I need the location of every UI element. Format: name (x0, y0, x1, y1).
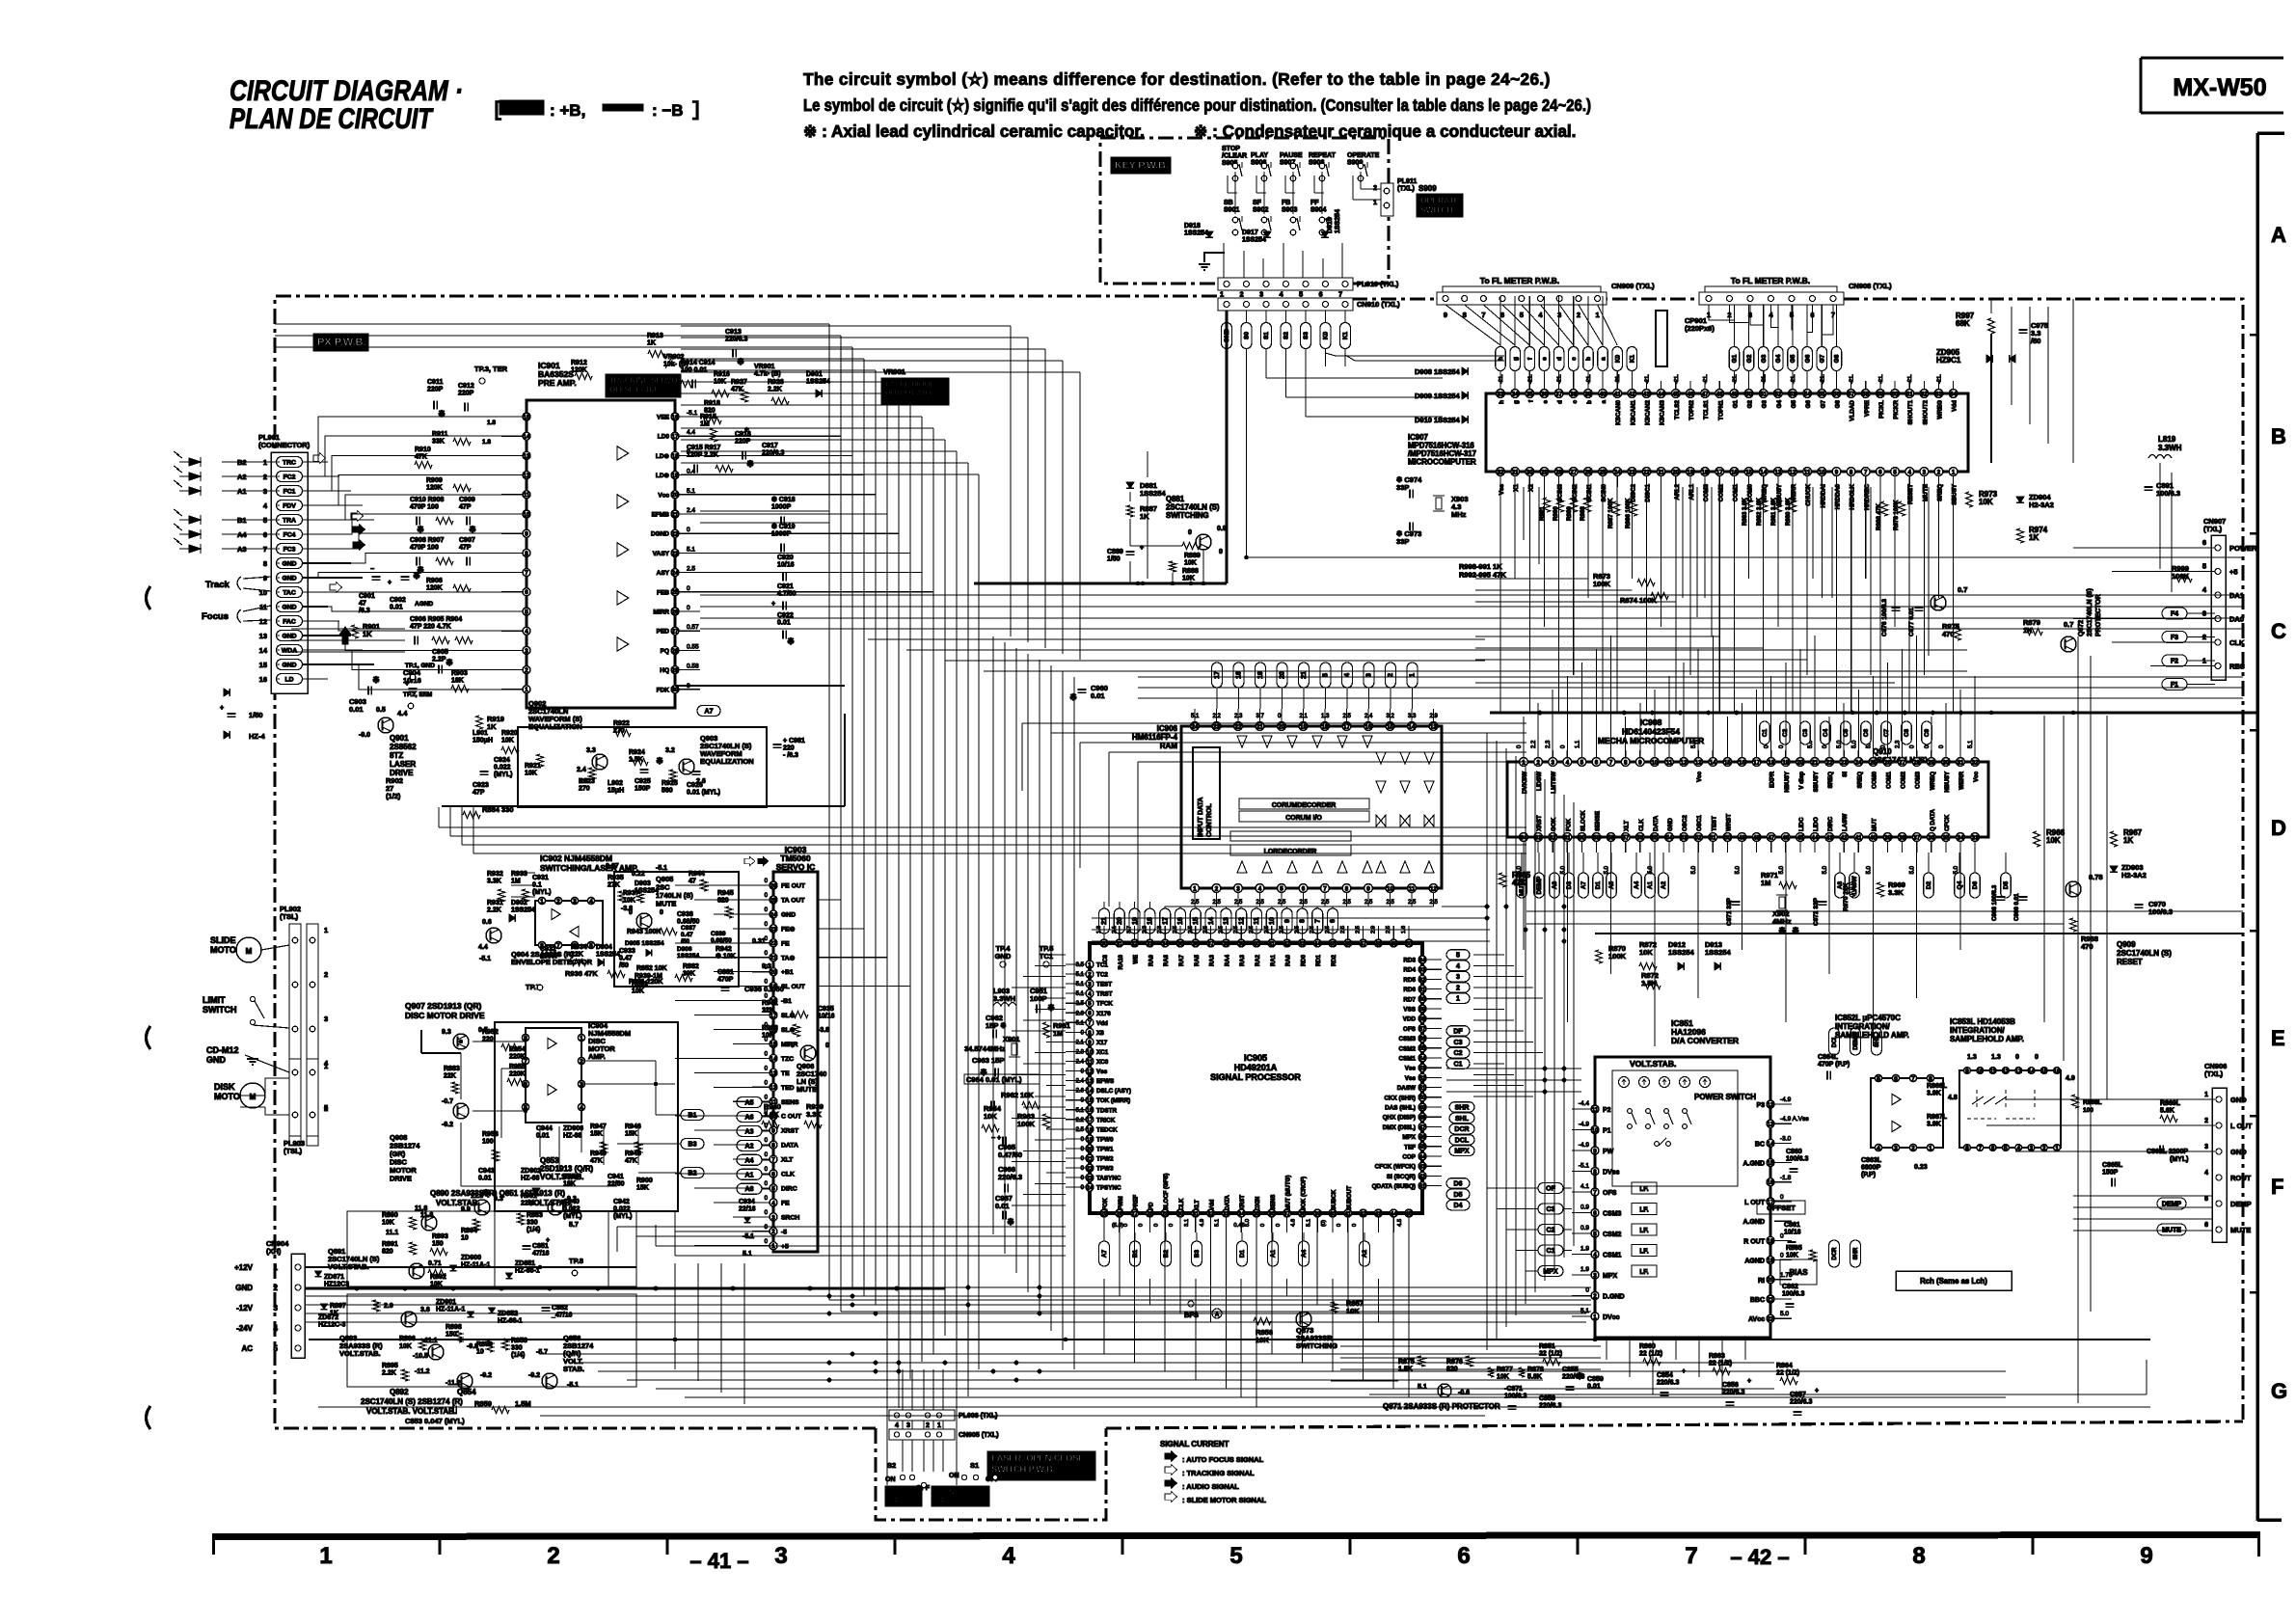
svg-text:: SLIDE MOTOR SIGNAL: : SLIDE MOTOR SIGNAL (1182, 1496, 1266, 1504)
svg-text:1SS254: 1SS254 (596, 952, 620, 959)
svg-text:A2: A2 (1661, 880, 1667, 889)
svg-text:(TSL): (TSL) (280, 912, 299, 921)
resistors R986 R987 (1613, 501, 1620, 516)
IC907 bottom pins (1497, 468, 1505, 476)
svg-text:12: 12 (524, 473, 530, 479)
svg-text:-4.9 A.Vss: -4.9 A.Vss (1780, 1116, 1809, 1123)
svg-text:TRA: TRA (283, 518, 296, 525)
svg-text:6: 6 (1991, 1145, 1995, 1151)
wire bundle central vertical bus (828, 324, 830, 1300)
svg-text:: −B: : −B (652, 101, 684, 120)
svg-text:※ C918: ※ C918 (771, 496, 796, 503)
svg-text:22: 22 (672, 531, 679, 538)
svg-text:43: 43 (1419, 1164, 1426, 1171)
svg-text:9OK (CROF): 9OK (CROF) (1301, 1177, 1307, 1210)
svg-text:TEST: TEST (1096, 982, 1112, 988)
svg-text:40: 40 (1870, 834, 1877, 841)
svg-text:: AUTO FOCUS SIGNAL: : AUTO FOCUS SIGNAL (1182, 1455, 1264, 1464)
wire long horizontals to right edge (1526, 910, 2243, 912)
wire protector row (1369, 1394, 2147, 1395)
svg-text:TP.8: TP.8 (569, 1257, 583, 1265)
svg-text:10K: 10K (430, 1282, 443, 1288)
svg-text:(TXL): (TXL) (2203, 525, 2223, 533)
svg-text:-5.1: -5.1 (479, 956, 491, 962)
svg-text:52: 52 (1774, 391, 1781, 397)
svg-text:※: ※ (438, 409, 446, 419)
svg-text:※: ※ (1576, 1371, 1583, 1381)
svg-text:R865: R865 (1786, 1245, 1802, 1252)
svg-text:HD49201A: HD49201A (1234, 1063, 1278, 1072)
resistor R888 (1170, 561, 1176, 572)
svg-text:+: + (744, 425, 749, 434)
svg-text:13: 13 (1774, 469, 1781, 475)
svg-text:1.8: 1.8 (482, 439, 491, 446)
svg-text:TOPN1: TOPN1 (1717, 400, 1724, 420)
Q905 mute cluster (614, 872, 739, 987)
svg-text:-21.: -21. (1557, 374, 1563, 384)
svg-text:5.7: 5.7 (569, 1222, 579, 1229)
svg-text:0: 0 (791, 1042, 795, 1049)
svg-text:TEDCK: TEDCK (1096, 1126, 1118, 1133)
svg-text:5.6K: 5.6K (2160, 1108, 2174, 1115)
wire horizontal feeds from left border (275, 323, 829, 325)
svg-text:4: 4 (1088, 991, 1092, 998)
IC905 right pills (1446, 950, 1470, 961)
svg-text:7: 7 (1864, 469, 1868, 475)
svg-text:2: 2 (1373, 185, 1377, 192)
svg-text:CLK: CLK (2229, 638, 2245, 647)
svg-text:R955: R955 (509, 1064, 526, 1070)
svg-text:25: 25 (1101, 1210, 1108, 1217)
svg-text:SHR: SHR (1455, 1105, 1470, 1112)
svg-text:VOLT.STAB. VOLT.STAB.: VOLT.STAB. VOLT.STAB. (366, 1407, 456, 1416)
svg-text:25: 25 (672, 589, 679, 596)
wire CN908 drops (1709, 305, 1734, 345)
svg-text:(MYL): (MYL) (532, 889, 551, 896)
svg-text:G5: G5 (1790, 354, 1796, 363)
svg-text:19: 19 (1782, 759, 1789, 766)
svg-text:9: 9 (1593, 1148, 1597, 1154)
wire IC907 bottom drops (1499, 487, 1501, 713)
resistor R965 (1499, 873, 1506, 887)
svg-text:12: 12 (259, 617, 267, 626)
svg-text:C7: C7 (1883, 728, 1890, 737)
svg-text:39: 39 (1884, 834, 1891, 841)
svg-text:6: 6 (1457, 1543, 1470, 1569)
svg-text:D6: D6 (1454, 1181, 1463, 1188)
svg-text:C OUT: C OUT (781, 1114, 802, 1121)
svg-text:29: 29 (1541, 469, 1548, 475)
svg-text:7: 7 (1911, 1075, 1915, 1082)
svg-text:41: 41 (1419, 1183, 1426, 1190)
svg-text:MX-W50: MX-W50 (2173, 74, 2266, 101)
wire long horizontals row E (1446, 1068, 1581, 1069)
svg-text:R911: R911 (432, 431, 447, 438)
svg-text:※: ※ (787, 636, 795, 646)
svg-text:2.9: 2.9 (384, 1303, 393, 1310)
svg-text:0.022: 0.022 (494, 765, 511, 771)
svg-text:11.1: 11.1 (386, 1230, 398, 1236)
svg-text:CN910 (TXL): CN910 (TXL) (1357, 300, 1400, 309)
svg-text:C9: C9 (1924, 728, 1931, 737)
svg-text:d: d (1557, 400, 1564, 404)
svg-text:CSM2: CSM2 (1603, 1232, 1622, 1238)
svg-text:L OUT: L OUT (1744, 1200, 1766, 1206)
svg-text:28: 28 (672, 648, 679, 655)
waveform EQ box (518, 727, 767, 807)
IC852L opamp block (1871, 1078, 1943, 1148)
svg-text:30: 30 (672, 687, 679, 693)
svg-text:COP: COP (1402, 1154, 1416, 1161)
svg-text:Vcc: Vcc (1696, 771, 1703, 782)
svg-text:55: 55 (1419, 1045, 1426, 1052)
svg-text:R891: R891 (382, 1241, 398, 1248)
svg-text:1: 1 (1952, 469, 1956, 475)
svg-text:48: 48 (1419, 1115, 1426, 1122)
svg-text:D908 1SS254: D908 1SS254 (1415, 367, 1461, 376)
key pwb ground (1204, 253, 1225, 262)
svg-text:4.5: 4.5 (1397, 1219, 1403, 1227)
svg-text:+: + (220, 705, 224, 712)
svg-text:SBUSY: SBUSY (1952, 483, 1958, 504)
svg-text:AC: AC (241, 1344, 253, 1353)
svg-text:11: 11 (1989, 1068, 1996, 1074)
svg-text:46: 46 (1688, 391, 1694, 397)
svg-text:R986 100K: R986 100K (1625, 498, 1632, 528)
svg-text:22K: 22K (571, 952, 583, 959)
svg-text:D904: D904 (596, 944, 612, 951)
svg-text:XRST: XRST (1240, 1195, 1246, 1210)
svg-text:-9.0: -9.0 (359, 732, 370, 739)
volt stab section outlines (347, 1211, 636, 1286)
svg-text:42: 42 (1419, 1174, 1426, 1180)
svg-text:TA OUT: TA OUT (781, 897, 805, 904)
svg-text:G6: G6 (1805, 400, 1812, 409)
svg-text:Vss: Vss (1405, 1075, 1417, 1082)
svg-text:ZD851: ZD851 (515, 1260, 535, 1267)
svg-text:18K: 18K (451, 678, 464, 685)
svg-text:COM3: COM3 (1703, 484, 1710, 502)
svg-text:11.8: 11.8 (415, 1205, 427, 1212)
svg-text:0: 0 (687, 527, 690, 533)
svg-text:TASYNC: TASYNC (1096, 1176, 1121, 1182)
svg-text:2.2K: 2.2K (487, 907, 501, 914)
svg-text:Q DATA: Q DATA (1930, 809, 1936, 831)
svg-text:SCIN0: SCIN0 (1601, 484, 1607, 502)
svg-text:※: ※ (469, 525, 476, 534)
svg-text:21: 21 (1087, 1155, 1094, 1162)
svg-text:POWER: POWER (2229, 544, 2257, 553)
svg-text:C968 100/6.3: C968 100/6.3 (1991, 884, 1998, 921)
svg-text:0.7: 0.7 (2064, 620, 2073, 629)
svg-text:23: 23 (672, 551, 679, 557)
svg-text:1000P: 1000P (771, 504, 792, 511)
svg-text:GND: GND (282, 663, 296, 669)
svg-text:TPW1: TPW1 (1096, 1146, 1114, 1152)
svg-text:2.5: 2.5 (1430, 900, 1439, 906)
svg-text:5: 5 (1520, 311, 1524, 319)
svg-text:19: 19 (672, 473, 679, 479)
svg-text:1M: 1M (1053, 1029, 1063, 1038)
svg-text:HZ-11A-1: HZ-11A-1 (461, 1262, 490, 1269)
svg-text:15: 15 (524, 414, 530, 420)
svg-text:47P: 47P (459, 545, 472, 552)
svg-text:R898: R898 (446, 1324, 462, 1331)
svg-text:60: 60 (1892, 391, 1899, 397)
svg-text:3.3K: 3.3K (764, 1110, 779, 1119)
svg-text:1K: 1K (647, 340, 656, 347)
svg-text:5.1: 5.1 (1418, 1384, 1427, 1391)
svg-text:LIDO: LIDO (1813, 817, 1820, 831)
svg-text:3.9K: 3.9K (1927, 1122, 1941, 1128)
svg-text:-21.: -21. (1732, 374, 1738, 384)
svg-text:9: 9 (1835, 469, 1839, 475)
svg-text:TED: TED (781, 1085, 795, 1092)
svg-text:24: 24 (770, 911, 777, 918)
svg-text:C937: C937 (681, 925, 696, 932)
svg-text:A3: A3 (745, 1128, 754, 1135)
svg-text:FF: FF (1310, 200, 1319, 206)
svg-text:DATA: DATA (781, 1143, 798, 1150)
svg-text:5: 5 (771, 1185, 775, 1192)
svg-text:HQ: HQ (660, 667, 669, 674)
svg-text:(TXL): (TXL) (2204, 1069, 2224, 1078)
svg-text:8: 8 (1345, 885, 1349, 892)
svg-text:6: 6 (1593, 1210, 1597, 1217)
svg-text:R925: R925 (662, 780, 678, 787)
resistor R856 (1254, 1318, 1271, 1325)
svg-text:P3: P3 (1756, 1102, 1765, 1109)
svg-text:2.3: 2.3 (1896, 740, 1902, 748)
svg-text:0: 0 (1123, 1224, 1129, 1227)
svg-text:1SS254: 1SS254 (1184, 230, 1208, 237)
svg-text:47/16: 47/16 (532, 1251, 550, 1258)
svg-text:B1: B1 (1132, 1249, 1139, 1258)
svg-text:15μH: 15μH (608, 788, 624, 795)
signal arrow TRA (351, 510, 364, 521)
frame right edge with zone letters (2255, 133, 2259, 1521)
diode D908 (1462, 367, 1468, 375)
svg-text:15: 15 (259, 661, 267, 669)
svg-text:R988: R988 (1580, 506, 1586, 521)
svg-text:4: 4 (1877, 1145, 1880, 1151)
svg-text:1: 1 (1596, 311, 1600, 319)
svg-text:2: 2 (1593, 1293, 1597, 1300)
svg-text:A1: A1 (1647, 880, 1654, 889)
svg-text:1: 1 (1220, 290, 1224, 299)
svg-text:54: 54 (1419, 1055, 1426, 1062)
svg-text:3: 3 (2204, 1144, 2208, 1150)
svg-text:Vcc: Vcc (1973, 771, 1980, 782)
svg-text:OFS: OFS (1403, 1026, 1416, 1033)
svg-text:L OUT: L OUT (2230, 1122, 2253, 1130)
svg-text:100: 100 (482, 1139, 494, 1146)
svg-text:GND: GND (282, 561, 296, 568)
svg-text:S2: S2 (887, 1461, 896, 1470)
diodes D916-D918 (1205, 231, 1213, 237)
svg-text:23: 23 (1087, 1176, 1094, 1182)
svg-text:2.2K: 2.2K (768, 387, 782, 393)
svg-text:A1: A1 (1270, 1249, 1277, 1258)
svg-text:: AUDIO SIGNAL: : AUDIO SIGNAL (1182, 1482, 1239, 1491)
svg-text:SREQ: SREQ (1937, 484, 1944, 501)
svg-text:0: 0 (1153, 1224, 1159, 1227)
svg-text:LASW: LASW (1842, 814, 1849, 831)
svg-text:+: + (1747, 1378, 1751, 1385)
wire PL901 to IC901 (303, 417, 523, 462)
wire IC907 bottom bus (1490, 712, 2256, 715)
wire EQ out horizontals (439, 826, 1526, 828)
resistor R975 (1955, 627, 1961, 640)
svg-text:2.4: 2.4 (577, 767, 586, 773)
svg-text:SWITCH P.W.B.: SWITCH P.W.B. (991, 1465, 1055, 1475)
svg-text:21: 21 (1658, 469, 1664, 475)
svg-text:GND: GND (282, 634, 296, 640)
svg-text:b: b (1585, 357, 1592, 361)
svg-text:1/50: 1/50 (1107, 556, 1121, 563)
svg-text:+: + (1815, 1388, 1819, 1394)
IC903 pills (737, 1097, 762, 1108)
svg-text:SLOCF (GFS): SLOCF (GFS) (1164, 1174, 1170, 1210)
svg-text:C963 15P: C963 15P (972, 1056, 1004, 1065)
IC906 pills below (1099, 908, 1110, 934)
svg-text:-9.2: -9.2 (442, 1122, 453, 1128)
pills DCR SHR (1829, 1240, 1840, 1267)
svg-text:SL OUT: SL OUT (781, 984, 806, 990)
IC906 pills above (1212, 663, 1223, 688)
wire lower right horizontals (1340, 1345, 1601, 1347)
svg-text:RESET: RESET (2117, 958, 2143, 966)
svg-text:-9.2: -9.2 (528, 1372, 540, 1379)
wire horizontals under IC905 (305, 1295, 1586, 1297)
svg-text:RD1: RD1 (1316, 954, 1322, 966)
svg-text:PL911: PL911 (1397, 178, 1417, 185)
svg-text:6: 6 (525, 589, 528, 596)
svg-text:I.F.: I.F. (1639, 1207, 1648, 1214)
svg-text:COM3: COM3 (1915, 771, 1922, 788)
svg-text:24: 24 (1614, 469, 1621, 475)
wire right horizontals above bus (1138, 676, 2243, 678)
svg-text:48: 48 (1716, 391, 1723, 397)
IC903 servo block (773, 872, 818, 1252)
svg-text:1K: 1K (2029, 533, 2039, 542)
svg-text:150μH: 150μH (473, 738, 493, 744)
svg-text:FEB: FEB (657, 589, 669, 596)
svg-text:39: 39 (1314, 1210, 1321, 1217)
svg-text:e: e (1542, 400, 1549, 404)
svg-text:18: 18 (1768, 759, 1774, 766)
svg-text:10K: 10K (525, 771, 537, 777)
svg-text:50: 50 (1419, 1095, 1426, 1101)
svg-text:R936 47K: R936 47K (565, 969, 598, 978)
svg-text:X1: X1 (1513, 484, 1520, 492)
svg-text:-24V: -24V (236, 1324, 254, 1333)
svg-text:C915 R917: C915 R917 (687, 445, 721, 451)
svg-text:C861: C861 (1784, 1222, 1800, 1229)
svg-text:6: 6 (2202, 538, 2206, 547)
svg-text:DEMP: DEMP (2162, 1202, 2182, 1208)
svg-text:22: 22 (1826, 759, 1833, 766)
svg-text:31: 31 (1512, 469, 1519, 475)
svg-text:※: ※ (746, 459, 754, 469)
svg-text:5.1: 5.1 (1076, 1020, 1085, 1026)
svg-text:SWITCH: SWITCH (1420, 205, 1453, 215)
svg-text:IC905: IC905 (1244, 1053, 1267, 1063)
svg-text:4: 4 (1907, 469, 1911, 475)
svg-text:RD7: RD7 (1403, 996, 1416, 1003)
svg-text:14: 14 (1087, 1088, 1094, 1095)
svg-text:C860: C860 (1786, 1149, 1802, 1155)
svg-text:10K: 10K (399, 1343, 412, 1350)
caps C901 C902 (372, 576, 381, 578)
svg-text:2.2: 2.2 (1076, 1118, 1085, 1123)
svg-text:F2: F2 (2171, 659, 2178, 665)
svg-text:6: 6 (1330, 919, 1337, 923)
caps C968 C969 (1997, 896, 2006, 898)
svg-text:LASER: LASER (390, 760, 416, 769)
svg-text:I.F.: I.F. (1639, 1269, 1648, 1276)
svg-text:DCR: DCR (1454, 1126, 1469, 1133)
svg-text:DVss: DVss (1603, 1170, 1620, 1177)
svg-text:-5.1: -5.1 (656, 865, 667, 872)
svg-text:XLT: XLT (1195, 1200, 1201, 1210)
svg-text:P1: P1 (1603, 1128, 1611, 1135)
svg-text:5.1: 5.1 (1968, 740, 1974, 748)
svg-text:28: 28 (1555, 469, 1562, 475)
svg-text:1.75: 1.75 (1780, 1272, 1793, 1279)
svg-text:0: 0 (1352, 1224, 1358, 1227)
svg-text:※: ※ (1069, 692, 1077, 702)
svg-text:12: 12 (2015, 1068, 2022, 1074)
svg-text:10: 10 (461, 1235, 469, 1242)
svg-text:HZ-68: HZ-68 (563, 1133, 582, 1140)
svg-text:24: 24 (672, 570, 679, 577)
svg-text:20: 20 (1672, 469, 1679, 475)
wire right verticals between IC905 and IC908 (1486, 733, 1488, 1350)
svg-text:SHL: SHL (1455, 1116, 1470, 1123)
svg-text:470P 100: 470P 100 (410, 504, 439, 511)
svg-text:2.5: 2.5 (1278, 900, 1286, 906)
svg-text:9.9: 9.9 (461, 1206, 471, 1213)
svg-text:2: 2 (1911, 1145, 1915, 1151)
svg-text:A3: A3 (237, 545, 247, 554)
svg-text:2.5: 2.5 (1234, 900, 1243, 906)
svg-text:/CLEAR: /CLEAR (1222, 153, 1247, 160)
Rch box (1896, 1271, 2012, 1290)
svg-text:-5.7: -5.7 (536, 1349, 548, 1356)
svg-text:5: 5 (589, 942, 593, 949)
svg-text:VOLT.STAB.: VOLT.STAB. (339, 1349, 381, 1358)
svg-text:SCIN1: SCIN1 (1586, 484, 1593, 502)
svg-text:D.GND: D.GND (1603, 1294, 1625, 1301)
svg-text:R868L: R868L (2083, 1099, 2102, 1106)
svg-text:R920: R920 (501, 730, 518, 737)
svg-text:6: 6 (1319, 290, 1323, 299)
svg-text:S3: S3 (1303, 332, 1310, 339)
svg-text:P2: P2 (1603, 1107, 1611, 1114)
svg-text:Vdd: Vdd (1210, 1199, 1216, 1210)
svg-text:18: 18 (1087, 1126, 1094, 1133)
resistor R974 (2017, 528, 2024, 543)
svg-text:0: 0 (1188, 529, 1192, 536)
svg-text:22: 22 (770, 940, 777, 947)
title CIRCUIT DIAGRAM / PLAN DE CIRCUIT (230, 75, 463, 135)
wires top right verticals (2011, 307, 2012, 405)
svg-text:14: 14 (1760, 469, 1767, 475)
svg-text:4.9: 4.9 (1200, 1219, 1205, 1227)
svg-text:120K: 120K (426, 585, 443, 592)
svg-text:43: 43 (1643, 391, 1650, 397)
